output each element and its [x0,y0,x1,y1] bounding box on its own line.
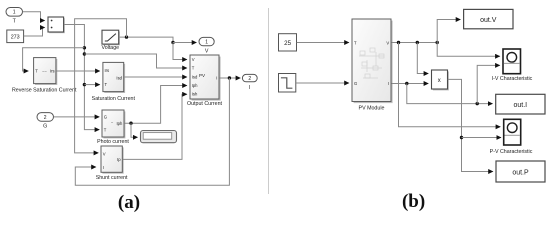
svg-text:P-V Characteristic: P-V Characteristic [490,149,533,155]
svg-text:~~: ~~ [42,69,47,74]
out.V block [464,9,513,28]
svg-text:out.V: out.V [480,17,497,24]
out.P block [496,161,545,182]
svg-text:T: T [192,66,195,71]
wire V to Output Current V [173,43,187,60]
svg-text:Photo current: Photo current [97,139,129,145]
constant 25 [279,34,297,51]
svg-text:out.P: out.P [512,169,529,176]
wire V to product [417,43,428,74]
junction dot [405,82,408,85]
junction dot [460,136,463,139]
svg-text:T: T [354,40,357,45]
svg-text:G: G [43,124,47,130]
svg-text:Iph: Iph [192,83,198,88]
wire V to I-V Characteristic [437,43,500,57]
wire 273 to sum [24,28,45,37]
svg-text:V: V [192,57,195,62]
svg-text:(a): (a) [118,192,140,213]
wire V to P-V Characteristic [399,43,501,127]
out.I block [496,94,545,114]
junction dot [83,46,86,49]
wire V to out.V [437,20,460,43]
svg-text:Iph: Iph [116,121,122,126]
svg-text:PV Module: PV Module [359,106,385,112]
junction dot [83,83,86,86]
step source [279,74,296,93]
wire T branch to Saturation Current T [84,84,99,86]
svg-text:2: 2 [44,115,47,121]
svg-text:2: 2 [248,76,251,82]
svg-text:Irs: Irs [105,68,110,73]
wire branch to display [131,123,137,137]
wire T branch to Reverse Saturation Current [23,48,85,71]
wire V distribution up-left-down to Shunt current V [75,19,127,153]
product block x [432,70,449,90]
wire Output Current I to outport 2 [219,77,240,79]
svg-text:G: G [354,81,357,86]
subsystem Reverse Saturation Current [12,58,77,94]
svg-text:T: T [105,82,108,87]
wire V to outport V [173,42,196,44]
outport 2 (I) [242,74,257,90]
subsystem Saturation Current [92,62,136,101]
wire I to out.I [407,84,493,104]
svg-text:V: V [103,151,106,156]
subsystem Output Current [187,55,223,107]
svg-text:Irs: Irs [50,69,55,74]
junction dot [171,41,174,44]
svg-text:273: 273 [11,34,20,40]
svg-text:1: 1 [13,10,16,16]
junction dot [125,35,128,38]
wire inport1 to sum [23,12,45,21]
svg-text:I: I [216,76,217,81]
svg-text:Reverse Saturation Current: Reverse Saturation Current [12,88,77,94]
wire product output to P-V and out.P [448,79,493,171]
wire step to PV Module G [296,82,349,84]
wire Iph to Output Current [124,86,187,124]
scope P-V Characteristic [490,119,533,155]
inport 1 (T) [6,8,23,25]
svg-text:G: G [104,115,107,120]
svg-text:Isd: Isd [192,75,198,80]
subsystem Photo current [97,110,129,145]
subsystem PV Module [352,19,393,112]
wire T branch to Output Current T [84,54,186,68]
wire sum output / Kelvin trunk down to Photo current T [64,25,99,130]
ramp source Voltage [101,30,119,51]
junction dot [416,41,419,44]
junction dot [129,122,132,125]
wire G to Photo current [54,116,99,118]
wire I to I-V Characteristic [477,65,500,103]
svg-text:out.I: out.I [513,102,527,109]
wire Irs to Saturation Current [56,70,99,72]
constant 273 [7,30,24,43]
svg-text:T: T [35,69,38,74]
wire feedback I to Shunt current [75,78,229,185]
svg-text:V: V [205,49,209,55]
inport 2 (G) [37,113,54,130]
svg-text:PV: PV [199,73,205,78]
outport 1 (V) [199,37,214,54]
subsystem Shunt current [96,146,128,181]
svg-text:T: T [104,127,107,132]
junction dot [436,41,439,44]
svg-text:Isd: Isd [116,76,122,81]
wire Voltage output [119,37,173,42]
junction dot [83,52,86,55]
svg-text:Saturation Current: Saturation Current [92,96,136,102]
svg-text:25: 25 [284,40,291,47]
junction dot [228,76,231,79]
svg-text:Shunt current: Shunt current [96,175,128,181]
svg-text:Output Current: Output Current [187,101,223,107]
svg-text:I: I [249,85,250,91]
wire PV V output trunk [392,42,438,44]
svg-text:(b): (b) [402,191,425,212]
scope I-V Characteristic [492,49,533,82]
sum block [48,17,65,33]
wire 25 to PV Module T [297,42,349,44]
svg-text:V: V [386,40,389,45]
svg-text:Voltage: Voltage [101,45,119,51]
svg-text:x: x [438,78,441,84]
svg-text:I: I [103,165,104,170]
junction dot [397,41,400,44]
junction dot [476,102,479,105]
svg-text:Ish: Ish [192,92,198,97]
svg-text:I: I [388,81,389,86]
wire Ip to Output Current Ish [123,94,187,159]
display block [141,131,177,143]
wire Isd to Output Current [124,76,187,78]
svg-text:1: 1 [205,40,208,46]
wire PV I output to product [392,83,429,85]
svg-text:I-V Characteristic: I-V Characteristic [492,76,533,82]
wire P to P-V Characteristic [462,137,501,139]
panel (a) right border [268,8,270,194]
